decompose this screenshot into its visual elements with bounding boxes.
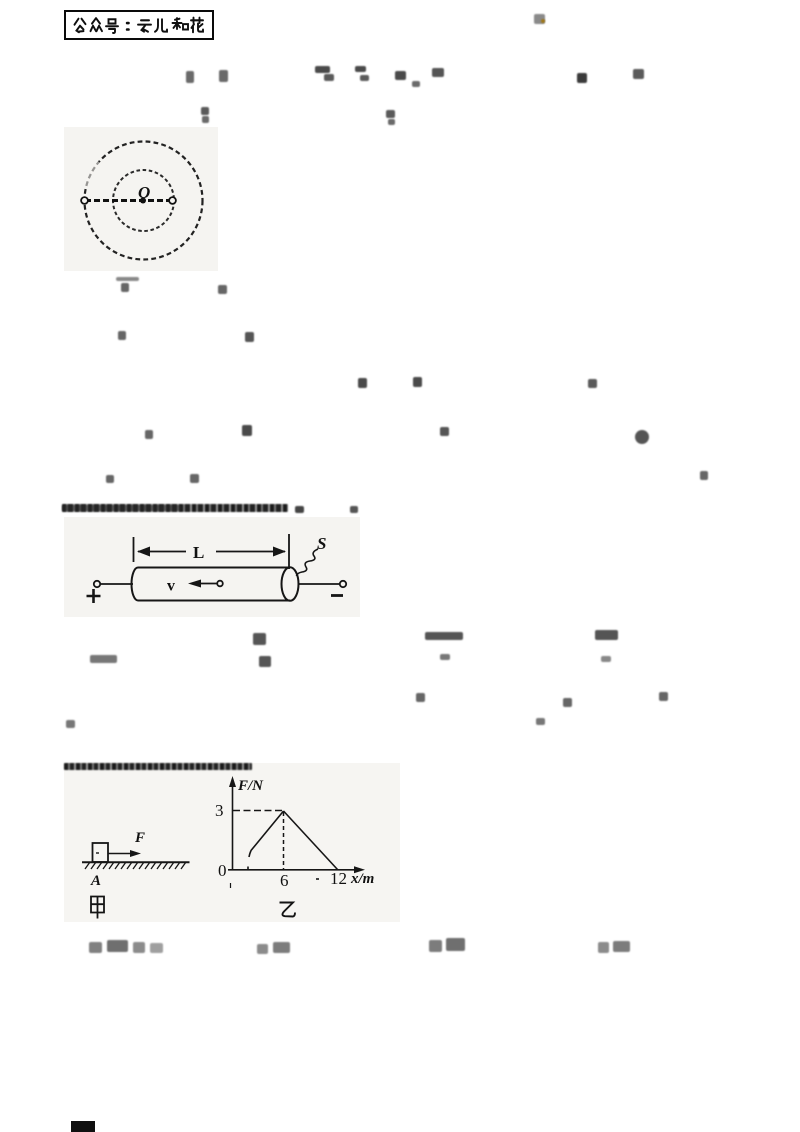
left charge circle xyxy=(81,197,88,204)
x axis xyxy=(228,869,360,871)
grey smudge with yellow dot top right xyxy=(534,14,545,24)
figure 3: block on ground and F-x graph xyxy=(64,763,400,923)
v arrow circle xyxy=(217,581,223,587)
plus symbol xyxy=(87,589,101,603)
garbled dark text line 2 xyxy=(64,763,252,770)
falling line xyxy=(284,811,338,870)
svg-text:F/N: F/N xyxy=(237,778,264,794)
figure background xyxy=(64,517,360,617)
squiggle leader to S xyxy=(297,549,319,576)
svg-text:0: 0 xyxy=(218,861,227,880)
right charge circle xyxy=(169,197,176,204)
L arrowhead left xyxy=(137,547,150,557)
wechat label text 公众号：云儿和花 xyxy=(72,16,204,34)
x axis arrowhead xyxy=(354,866,365,873)
L arrowhead right xyxy=(273,547,286,557)
block A xyxy=(93,843,109,862)
force F arrowhead xyxy=(130,850,141,857)
svg-text:x/m: x/m xyxy=(350,871,374,887)
tick on axis below rise start xyxy=(247,867,249,871)
y axis xyxy=(232,780,234,870)
garbled dark text line 1 xyxy=(62,504,288,512)
svg-text:v: v xyxy=(167,578,175,595)
faint text row B xyxy=(201,107,209,115)
svg-text:6: 6 xyxy=(280,871,289,890)
svg-text:F: F xyxy=(134,830,145,846)
dot inside block xyxy=(96,852,99,854)
svg-text:A: A xyxy=(90,873,101,889)
left wire xyxy=(100,583,133,585)
cylinder tube body xyxy=(132,568,290,601)
L dimension arrow left segment xyxy=(138,551,186,553)
dashed horizontal at F=3 xyxy=(233,810,283,812)
right terminal circle xyxy=(340,581,346,587)
y axis arrowhead xyxy=(229,776,236,787)
outer circle faint patch upper-left xyxy=(86,162,99,187)
ground line xyxy=(82,861,190,863)
ground hatching xyxy=(85,862,186,869)
faint options row bottom xyxy=(89,942,102,953)
outer dashed circle xyxy=(85,142,203,260)
tick below origin xyxy=(230,883,232,888)
center dot O xyxy=(140,198,146,204)
v arrowhead xyxy=(188,580,201,588)
wechat label box xyxy=(64,10,214,40)
faint text row A xyxy=(186,71,194,83)
minus symbol xyxy=(331,594,343,597)
figure background xyxy=(64,763,400,922)
right wire xyxy=(299,583,340,585)
figure background xyxy=(64,127,218,271)
left terminal circle xyxy=(94,581,100,587)
rising line xyxy=(249,811,284,857)
inner dashed circle xyxy=(113,170,174,231)
dot on x axis xyxy=(316,878,319,880)
faint marks rows mid page xyxy=(121,283,129,292)
svg-text:3: 3 xyxy=(215,801,224,820)
faint marks rows below figure 2 xyxy=(253,633,266,645)
small streak under figure 1 xyxy=(116,277,139,281)
left tick of L span xyxy=(133,537,135,562)
black mark bottom left xyxy=(71,1121,95,1132)
right tick of L span xyxy=(288,534,290,569)
figure 2: charged tube / current diagram xyxy=(64,517,360,617)
force F arrow line xyxy=(108,853,137,855)
dashed vertical at x=6 xyxy=(283,812,285,869)
figure 1: equipotential circles diagram xyxy=(64,127,218,271)
dashed horizontal line xyxy=(85,199,170,202)
svg-text:12: 12 xyxy=(330,869,347,888)
svg-text:S: S xyxy=(317,534,326,553)
cylinder right end ellipse S xyxy=(282,567,299,601)
v arrow line xyxy=(192,583,217,585)
svg-text:L: L xyxy=(193,543,204,562)
label jia 甲 xyxy=(91,897,104,919)
label yi 乙 xyxy=(280,903,296,917)
L dimension arrow right segment xyxy=(216,551,285,553)
svg-text:O: O xyxy=(138,183,150,202)
